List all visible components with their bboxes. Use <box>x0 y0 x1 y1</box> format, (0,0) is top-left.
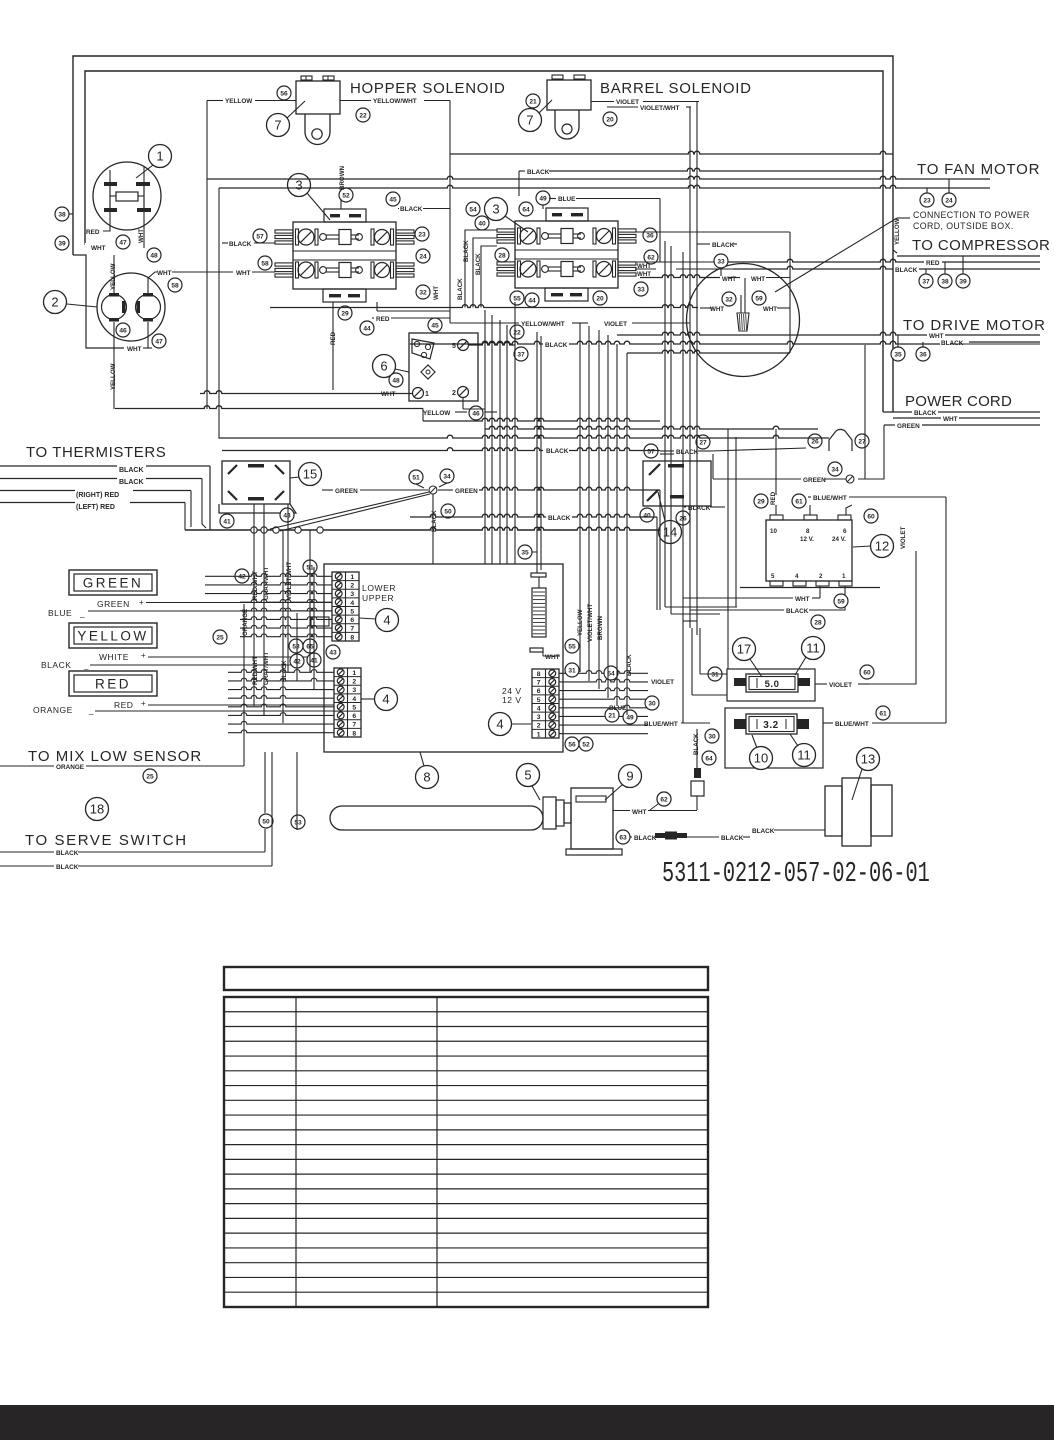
svg-text:59: 59 <box>755 295 763 302</box>
svg-text:7: 7 <box>274 118 281 133</box>
svg-text:30: 30 <box>708 733 716 740</box>
svg-text:8: 8 <box>350 634 354 641</box>
svg-text:WHT: WHT <box>929 333 944 340</box>
svg-text:(LEFT) RED: (LEFT) RED <box>76 504 115 511</box>
svg-text:WHT: WHT <box>381 391 396 398</box>
svg-text:BLACK: BLACK <box>548 515 571 522</box>
svg-text:BLACK: BLACK <box>229 241 252 248</box>
svg-text:BLACK: BLACK <box>545 342 568 349</box>
svg-text:BLACK: BLACK <box>634 835 657 842</box>
svg-text:TO THERMISTERS: TO THERMISTERS <box>26 444 166 461</box>
svg-text:30: 30 <box>648 700 656 707</box>
svg-text:33: 33 <box>717 258 725 265</box>
svg-text:VIOLET: VIOLET <box>651 679 674 686</box>
svg-text:5: 5 <box>350 608 354 615</box>
svg-text:23: 23 <box>418 231 426 238</box>
svg-text:WHT: WHT <box>943 416 958 423</box>
svg-text:BROWN: BROWN <box>339 165 346 190</box>
svg-text:28: 28 <box>498 252 506 259</box>
svg-text:2: 2 <box>352 679 356 686</box>
svg-text:58: 58 <box>261 260 269 267</box>
svg-text:5311-0212-057-02-06-01: 5311-0212-057-02-06-01 <box>662 857 930 891</box>
svg-text:5: 5 <box>537 697 541 704</box>
svg-text:25: 25 <box>146 773 154 780</box>
svg-text:CONNECTION TO POWER: CONNECTION TO POWER <box>913 210 1030 220</box>
svg-text:46: 46 <box>472 410 480 417</box>
svg-text:TO COMPRESSOR: TO COMPRESSOR <box>912 237 1050 254</box>
svg-text:BLACK: BLACK <box>119 467 144 474</box>
svg-text:5: 5 <box>352 704 356 711</box>
svg-text:40: 40 <box>643 512 651 519</box>
svg-text:YELLOW: YELLOW <box>894 218 901 245</box>
svg-text:3: 3 <box>492 202 499 217</box>
svg-text:55: 55 <box>568 643 576 650</box>
svg-text:60: 60 <box>867 513 875 520</box>
svg-text:WHT: WHT <box>433 286 440 300</box>
svg-text:3.2: 3.2 <box>763 720 778 731</box>
svg-text:BLACK: BLACK <box>688 505 711 512</box>
svg-text:BLACK: BLACK <box>431 510 438 532</box>
svg-text:YELLOW/WHT: YELLOW/WHT <box>521 321 565 328</box>
svg-text:58: 58 <box>171 282 179 289</box>
svg-text:WHT: WHT <box>763 306 777 313</box>
svg-text:29: 29 <box>757 498 765 505</box>
svg-text:52: 52 <box>342 192 350 199</box>
svg-text:5.0: 5.0 <box>765 679 780 690</box>
svg-text:29: 29 <box>341 310 349 317</box>
svg-text:VIOLET: VIOLET <box>616 99 639 106</box>
svg-text:48: 48 <box>392 377 400 384</box>
svg-text:8: 8 <box>423 770 430 785</box>
svg-text:38: 38 <box>58 211 66 218</box>
svg-text:BLACK: BLACK <box>56 850 79 857</box>
svg-text:33: 33 <box>637 286 645 293</box>
svg-text:4: 4 <box>352 696 356 703</box>
svg-text:7: 7 <box>526 113 533 128</box>
svg-text:36: 36 <box>919 351 927 358</box>
svg-text:YELLOW: YELLOW <box>110 363 117 390</box>
svg-text:8: 8 <box>806 528 810 535</box>
svg-text:61: 61 <box>795 498 803 505</box>
svg-text:3: 3 <box>352 687 356 694</box>
svg-text:45: 45 <box>431 322 439 329</box>
svg-text:GREEN: GREEN <box>97 599 130 609</box>
svg-text:_: _ <box>83 661 89 670</box>
svg-text:VIOLET/WHT: VIOLET/WHT <box>587 604 594 642</box>
svg-text:RED: RED <box>86 229 100 236</box>
svg-text:4: 4 <box>496 717 503 732</box>
svg-text:TO MIX LOW SENSOR: TO MIX LOW SENSOR <box>28 748 202 765</box>
svg-text:6: 6 <box>537 688 541 695</box>
svg-text:UPPER: UPPER <box>362 593 394 603</box>
svg-text:22: 22 <box>359 112 367 119</box>
svg-text:YELLOW/WHT: YELLOW/WHT <box>373 98 417 105</box>
svg-text:BLACK: BLACK <box>752 828 775 835</box>
svg-text:49: 49 <box>626 714 634 721</box>
svg-text:BLACK: BLACK <box>914 410 937 417</box>
svg-text:34: 34 <box>831 466 839 473</box>
svg-text:4: 4 <box>382 692 389 707</box>
svg-text:BLACK: BLACK <box>527 169 550 176</box>
svg-text:40: 40 <box>478 220 486 227</box>
svg-text:_: _ <box>88 706 94 715</box>
svg-text:6: 6 <box>352 713 356 720</box>
svg-text:39: 39 <box>959 278 967 285</box>
svg-text:3: 3 <box>350 591 354 598</box>
svg-text:GREEN: GREEN <box>335 488 358 495</box>
svg-text:45: 45 <box>389 196 397 203</box>
svg-text:VIOLET/WHT: VIOLET/WHT <box>286 562 293 600</box>
svg-text:46: 46 <box>119 327 127 334</box>
svg-text:BLACK: BLACK <box>941 340 964 347</box>
svg-text:2: 2 <box>537 723 541 730</box>
svg-text:1: 1 <box>156 149 163 164</box>
svg-text:RED: RED <box>926 260 940 267</box>
svg-text:42: 42 <box>238 573 246 580</box>
svg-text:51: 51 <box>412 474 420 481</box>
svg-text:4: 4 <box>795 573 799 580</box>
svg-text:GREEN: GREEN <box>803 477 826 484</box>
svg-text:5: 5 <box>524 768 531 783</box>
svg-text:37: 37 <box>922 278 930 285</box>
svg-text:47: 47 <box>155 338 163 345</box>
svg-text:BLUE: BLUE <box>609 705 627 712</box>
svg-text:4: 4 <box>383 613 390 628</box>
svg-text:LOWER: LOWER <box>362 583 396 593</box>
svg-text:55: 55 <box>513 295 521 302</box>
svg-text:3: 3 <box>537 714 541 721</box>
svg-text:9: 9 <box>626 769 633 784</box>
svg-text:1: 1 <box>350 574 354 581</box>
svg-text:35: 35 <box>521 549 529 556</box>
svg-text:+: + <box>141 699 146 708</box>
svg-text:GREEN: GREEN <box>455 488 478 495</box>
svg-text:TO SERVE SWITCH: TO SERVE SWITCH <box>25 832 188 849</box>
svg-text:BLACK: BLACK <box>786 608 809 615</box>
svg-text:13: 13 <box>861 752 875 767</box>
svg-text:53: 53 <box>294 819 302 826</box>
svg-text:34: 34 <box>443 473 451 480</box>
svg-text:18: 18 <box>90 802 104 817</box>
svg-text:50: 50 <box>262 818 270 825</box>
svg-text:BLUE: BLUE <box>558 196 576 203</box>
svg-text:YELLOW: YELLOW <box>77 629 148 644</box>
svg-text:48: 48 <box>150 252 158 259</box>
svg-text:6: 6 <box>380 359 387 374</box>
svg-text:37: 37 <box>517 351 525 358</box>
svg-text:5: 5 <box>452 343 456 350</box>
svg-text:12 V: 12 V <box>502 695 522 705</box>
svg-text:CORD, OUTSIDE BOX.: CORD, OUTSIDE BOX. <box>913 221 1014 231</box>
svg-text:20: 20 <box>606 116 614 123</box>
svg-text:BLACK: BLACK <box>895 267 918 274</box>
svg-text:57: 57 <box>647 448 655 455</box>
svg-text:YELLOW: YELLOW <box>577 609 584 636</box>
svg-text:BLACK: BLACK <box>457 278 464 300</box>
svg-text:61: 61 <box>879 710 887 717</box>
svg-text:6: 6 <box>350 617 354 624</box>
svg-text:WHT: WHT <box>545 654 560 661</box>
svg-text:59: 59 <box>837 598 845 605</box>
svg-text:63: 63 <box>619 834 627 841</box>
svg-text:31: 31 <box>568 667 576 674</box>
svg-text:3: 3 <box>295 178 302 193</box>
svg-text:ORANGE: ORANGE <box>242 609 249 636</box>
svg-text:BLACK: BLACK <box>56 864 79 871</box>
svg-text:10: 10 <box>770 528 777 535</box>
svg-text:(RIGHT) RED: (RIGHT) RED <box>76 492 119 499</box>
svg-text:39: 39 <box>58 240 66 247</box>
svg-text:1: 1 <box>425 391 429 398</box>
svg-text:60: 60 <box>863 669 871 676</box>
svg-text:WHT: WHT <box>795 596 810 603</box>
svg-text:43: 43 <box>283 512 291 519</box>
svg-text:7: 7 <box>350 626 354 633</box>
svg-text:2: 2 <box>51 295 58 310</box>
svg-text:47: 47 <box>119 239 127 246</box>
svg-text:64: 64 <box>522 206 530 213</box>
svg-text:15: 15 <box>303 467 317 482</box>
svg-text:YELLOW: YELLOW <box>423 410 451 417</box>
svg-text:TO FAN MOTOR: TO FAN MOTOR <box>917 161 1040 178</box>
svg-text:56: 56 <box>280 90 288 97</box>
svg-text:53: 53 <box>292 643 300 650</box>
svg-text:BLACK: BLACK <box>41 660 71 670</box>
svg-text:2: 2 <box>350 583 354 590</box>
svg-text:11: 11 <box>806 641 820 656</box>
svg-text:YELLOW: YELLOW <box>225 98 253 105</box>
svg-text:1: 1 <box>842 573 846 580</box>
svg-text:23: 23 <box>923 197 931 204</box>
svg-text:21: 21 <box>529 98 537 105</box>
svg-text:BARREL SOLENOID: BARREL SOLENOID <box>600 80 752 97</box>
svg-text:_: _ <box>79 609 85 618</box>
svg-text:1: 1 <box>537 731 541 738</box>
svg-text:WHT: WHT <box>632 809 647 816</box>
svg-text:WHT: WHT <box>236 270 251 277</box>
svg-text:2: 2 <box>819 573 823 580</box>
svg-text:32: 32 <box>419 289 427 296</box>
svg-text:12: 12 <box>875 539 889 554</box>
svg-text:36: 36 <box>646 232 654 239</box>
svg-text:24: 24 <box>945 197 953 204</box>
svg-text:WHT: WHT <box>710 306 724 313</box>
svg-text:BLUE: BLUE <box>48 608 72 618</box>
svg-text:10: 10 <box>754 751 768 766</box>
svg-text:POWER CORD: POWER CORD <box>905 393 1012 410</box>
svg-text:17: 17 <box>737 642 751 657</box>
svg-text:+: + <box>139 598 144 607</box>
svg-text:VIOLET/WHT: VIOLET/WHT <box>640 105 680 112</box>
svg-text:YELLOW: YELLOW <box>110 263 117 290</box>
svg-text:BLACK: BLACK <box>676 449 699 456</box>
svg-text:1: 1 <box>352 670 356 677</box>
svg-text:TO DRIVE MOTOR: TO DRIVE MOTOR <box>903 317 1046 334</box>
svg-text:24: 24 <box>419 253 427 260</box>
svg-text:ORANGE: ORANGE <box>33 705 73 715</box>
svg-text:32: 32 <box>725 296 733 303</box>
svg-text:+: + <box>141 651 146 660</box>
svg-text:11: 11 <box>797 748 811 763</box>
svg-text:WHT: WHT <box>751 276 765 283</box>
svg-text:38: 38 <box>941 278 949 285</box>
svg-text:8: 8 <box>537 671 541 678</box>
svg-text:WHT: WHT <box>127 346 142 353</box>
svg-text:21: 21 <box>608 712 616 719</box>
svg-text:BLACK: BLACK <box>119 479 144 486</box>
svg-text:WHITE: WHITE <box>99 652 129 662</box>
svg-text:49: 49 <box>539 195 547 202</box>
svg-text:BLACK: BLACK <box>400 206 423 213</box>
svg-text:50: 50 <box>444 508 452 515</box>
svg-text:VIOLET: VIOLET <box>900 526 907 549</box>
svg-text:62: 62 <box>647 254 655 261</box>
svg-text:GREEN: GREEN <box>897 423 920 430</box>
svg-text:BLACK: BLACK <box>546 448 569 455</box>
svg-text:28: 28 <box>814 619 822 626</box>
svg-text:ORANGE: ORANGE <box>56 764 85 771</box>
svg-text:35: 35 <box>894 351 902 358</box>
svg-text:RED: RED <box>95 677 131 692</box>
svg-text:BLACK: BLACK <box>712 242 735 249</box>
svg-text:BLUE/WHT: BLUE/WHT <box>835 721 869 728</box>
svg-text:25: 25 <box>216 634 224 641</box>
svg-text:WHT: WHT <box>138 229 145 243</box>
svg-text:44: 44 <box>363 325 371 332</box>
svg-text:31: 31 <box>711 671 719 678</box>
svg-text:BLUE/WHT: BLUE/WHT <box>644 721 678 728</box>
svg-text:WHT: WHT <box>91 245 106 252</box>
svg-text:44: 44 <box>528 297 536 304</box>
svg-text:43: 43 <box>329 649 337 656</box>
svg-text:BLUE/WHT: BLUE/WHT <box>813 495 847 502</box>
svg-text:24 V.: 24 V. <box>832 536 846 543</box>
svg-text:54: 54 <box>469 206 477 213</box>
svg-text:27: 27 <box>699 439 707 446</box>
svg-text:2: 2 <box>452 390 456 397</box>
svg-text:64: 64 <box>705 755 713 762</box>
svg-text:7: 7 <box>352 722 356 729</box>
svg-text:VIOLET: VIOLET <box>604 321 627 328</box>
svg-text:BROWN: BROWN <box>597 615 604 640</box>
svg-text:RED: RED <box>376 316 390 323</box>
svg-text:WHT: WHT <box>157 270 172 277</box>
svg-text:VIOLET: VIOLET <box>829 682 852 689</box>
svg-text:4: 4 <box>350 600 354 607</box>
svg-text:BLACK: BLACK <box>463 240 470 262</box>
svg-text:4: 4 <box>537 705 541 712</box>
svg-text:62: 62 <box>660 796 668 803</box>
svg-text:RED: RED <box>114 700 133 710</box>
svg-text:20: 20 <box>596 295 604 302</box>
svg-text:6: 6 <box>843 528 847 535</box>
svg-text:7: 7 <box>537 680 541 687</box>
svg-text:8: 8 <box>352 730 356 737</box>
svg-text:GREEN: GREEN <box>83 576 144 591</box>
svg-text:57: 57 <box>256 233 264 240</box>
svg-text:12 V.: 12 V. <box>800 536 814 543</box>
svg-text:HOPPER SOLENOID: HOPPER SOLENOID <box>350 80 506 97</box>
svg-text:26: 26 <box>811 438 819 445</box>
svg-text:52: 52 <box>582 741 590 748</box>
svg-text:BLACK: BLACK <box>721 835 744 842</box>
svg-text:5: 5 <box>771 573 775 580</box>
svg-text:41: 41 <box>223 518 231 525</box>
svg-text:56: 56 <box>568 741 576 748</box>
